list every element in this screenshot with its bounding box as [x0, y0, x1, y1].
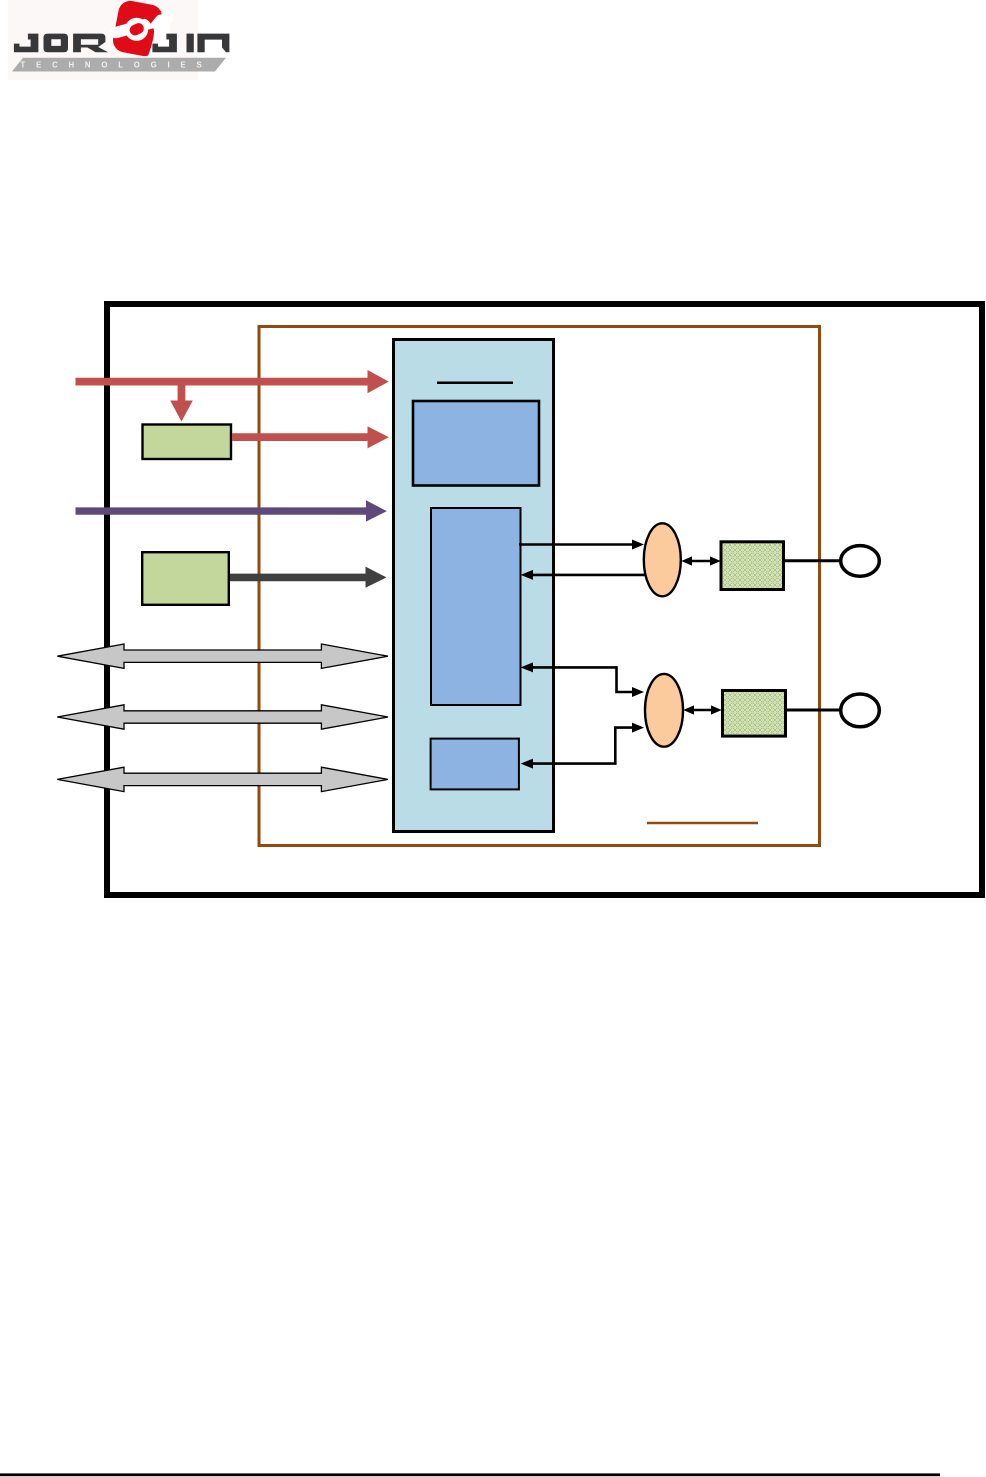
ellipse 2: [645, 674, 683, 747]
line hatch box 2 to antenna circle 2: [787, 709, 840, 712]
green box 1: [143, 425, 232, 460]
hatched box 1: [721, 542, 784, 590]
logo letter J of JOR: [14, 34, 39, 53]
red arrow 1 (top, into module): [76, 370, 389, 393]
logo background tint: [8, 0, 198, 80]
gray double arrow 1: [57, 644, 388, 668]
antenna circle 1: [841, 546, 880, 577]
red arrow 2 (green box 1 to module): [232, 426, 389, 448]
return arrow ellipse 1 to box2: [521, 570, 645, 580]
logo letter I of JIN: [187, 34, 194, 53]
outer black frame: [107, 304, 982, 895]
logo letter J of JIN: [152, 34, 177, 53]
footer rule: [0, 1473, 940, 1476]
gray double arrow 3: [57, 767, 388, 791]
double arrow ellipse2 - hatch box 2: [683, 705, 722, 714]
arrow box2 to ellipse 1: [519, 540, 644, 550]
red branch arrow down to green box 1: [170, 385, 193, 422]
logo letter O of JOR: [44, 34, 69, 53]
blue sub-box 2 (tall): [431, 508, 521, 705]
logo letter N of JIN: [197, 34, 229, 53]
logo letter R of JOR: [73, 34, 108, 53]
antenna circle 2: [841, 694, 880, 727]
purple arrow: [76, 500, 387, 521]
green box 2: [142, 552, 229, 605]
svg-text:TECHNOLOGIES: TECHNOLOGIES: [21, 61, 213, 70]
small black underline in module: [437, 381, 513, 384]
brown inner frame: [259, 327, 820, 846]
blue sub-box 3 (small): [431, 739, 519, 790]
logo red emblem: [111, 0, 170, 58]
ellipse 1: [644, 523, 681, 596]
hatched box 2: [723, 691, 786, 737]
logo banner TECHNOLOGIES: [12, 58, 226, 72]
elbow arrow box3 to ellipse2: [521, 723, 644, 769]
double arrow ellipse1 - hatch box 1: [681, 556, 720, 565]
gray double arrow 2: [57, 705, 388, 729]
elbow arrow ellipse2 to box2: [521, 662, 644, 697]
blue sub-box 1: [413, 401, 539, 486]
dark gray arrow (green box 2 to module): [230, 567, 387, 588]
light blue module box: [394, 340, 554, 832]
line hatch box 1 to antenna circle 1: [785, 559, 840, 562]
brown short underline bottom right: [647, 822, 758, 825]
